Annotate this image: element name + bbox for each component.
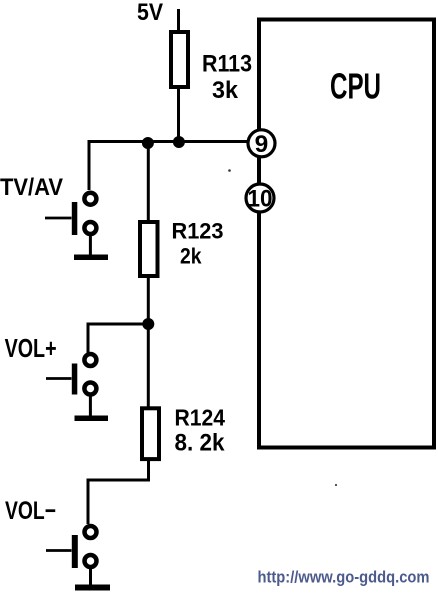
svg-text:10: 10 xyxy=(248,186,273,213)
svg-text:R124: R124 xyxy=(175,405,226,431)
wire R124 to corner xyxy=(88,461,149,524)
scan speckle xyxy=(335,484,337,486)
ground VOL+ xyxy=(75,416,109,422)
label R124 8.2k xyxy=(175,405,226,457)
wire main horizontal to CPU pin 9 xyxy=(89,140,248,143)
wire VOL- switch to ground xyxy=(89,567,92,586)
pin 9 xyxy=(248,130,275,158)
CPU box U1 xyxy=(259,20,434,448)
junction node B dot xyxy=(142,137,154,149)
label R123 2k xyxy=(172,219,224,269)
wire node C horizontal xyxy=(88,323,148,326)
ground VOL- xyxy=(75,585,110,591)
wire node to TV/AV switch xyxy=(88,140,91,190)
resistor R113 xyxy=(171,32,188,87)
svg-text:http://www.go-gddq.com: http://www.go-gddq.com xyxy=(258,569,430,587)
wire TV/AV switch to ground xyxy=(89,234,92,256)
wire to VOL+ switch xyxy=(87,323,90,354)
junction node C dot xyxy=(142,318,154,330)
scan speckle xyxy=(228,169,231,172)
switch VOL+ xyxy=(46,354,96,395)
ground TV/AV xyxy=(74,255,108,261)
svg-text:5V: 5V xyxy=(137,0,163,26)
svg-text:TV/AV: TV/AV xyxy=(0,174,63,201)
wire 5V lead to R113 xyxy=(177,9,180,32)
svg-text:3k: 3k xyxy=(212,77,239,104)
svg-text:9: 9 xyxy=(255,131,269,158)
svg-text:VOL+: VOL+ xyxy=(5,333,57,363)
pin 10 xyxy=(246,184,274,213)
switch TV/AV xyxy=(45,193,96,235)
junction node A dot xyxy=(173,136,185,148)
switch VOL- xyxy=(46,526,97,568)
wire node B to R123 xyxy=(147,141,150,221)
svg-text:CPU: CPU xyxy=(330,66,381,107)
wire VOL+ switch to ground xyxy=(89,394,92,417)
svg-text:R113: R113 xyxy=(202,51,252,78)
wire R123 to node C xyxy=(147,278,150,324)
resistor R124 xyxy=(142,408,159,459)
label R113 3k xyxy=(202,51,252,105)
svg-text:2k: 2k xyxy=(180,244,202,269)
wire R113 to node A xyxy=(177,89,180,142)
svg-text:VOL−: VOL− xyxy=(5,497,56,525)
resistor R123 xyxy=(140,222,158,276)
svg-text:R123: R123 xyxy=(172,219,224,244)
wire node C to R124 xyxy=(147,324,150,407)
svg-text:8. 2k: 8. 2k xyxy=(175,430,226,457)
